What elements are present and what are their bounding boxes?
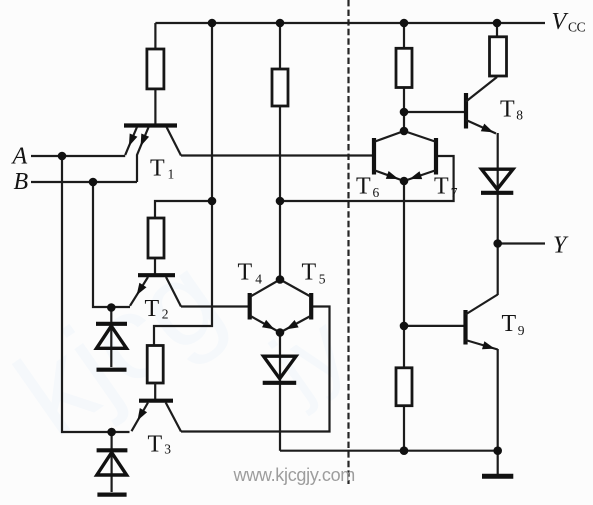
resistor R2 (272, 69, 288, 106)
transistor T1 (multi-emitter input) (124, 126, 181, 183)
svg-text:5: 5 (319, 271, 326, 286)
wire Vcc feed x=212 down to T2/T3 base resistors (154, 23, 212, 346)
resistor R1 (147, 49, 164, 89)
node T4/T5 collector junction (276, 275, 285, 284)
svg-text:2: 2 (162, 307, 169, 322)
wire T8 base (404, 111, 464, 113)
node T2-base junction (208, 197, 217, 206)
wire T2 collector to T4 base (181, 305, 248, 307)
wire R2 column x=280 (279, 23, 281, 280)
node B junction (89, 178, 98, 187)
node T6/T7 emitter junction (400, 177, 409, 186)
svg-text:T: T (148, 432, 163, 458)
resistor R5 (396, 48, 412, 87)
wire T7 base wrap (280, 156, 454, 201)
wire output Y (498, 242, 545, 244)
svg-text:T: T (145, 296, 160, 322)
dashed divider line (347, 0, 349, 484)
transistor T3 (132, 383, 182, 432)
svg-text:6: 6 (373, 185, 380, 200)
svg-text:T: T (500, 97, 515, 123)
node Y junction (493, 239, 502, 248)
node T6/T7 collector junction (400, 127, 409, 136)
svg-text:1: 1 (168, 167, 175, 182)
wire column x=404 (403, 23, 405, 451)
svg-text:T: T (502, 311, 517, 337)
transistor T8 (466, 77, 497, 134)
transistor T7 (404, 131, 436, 181)
wire Vcc rail (155, 22, 545, 24)
resistor R6 (490, 37, 507, 76)
ground (D2) (97, 493, 126, 497)
diode D3 (263, 356, 297, 383)
wire input B (31, 181, 137, 183)
svg-text:8: 8 (516, 107, 523, 122)
wire input A (31, 155, 125, 157)
diode D2 (input clamp, A) (97, 432, 128, 492)
transistor T4 (250, 280, 280, 333)
wire A riser to T3 emitter (62, 156, 130, 432)
svg-text:T: T (302, 260, 317, 286)
svg-text:T: T (356, 174, 371, 200)
node D2 anode junction (107, 428, 116, 437)
transistor T2 (130, 275, 181, 306)
svg-text:T: T (434, 174, 449, 200)
wire T8 emitter / D4 / output column (497, 133, 499, 295)
wire T5 base wrap to T3 collector (181, 307, 330, 432)
diode D1 (input clamp, B) (96, 308, 127, 368)
node T9-base junction (400, 322, 409, 331)
svg-text:V: V (552, 9, 569, 35)
wire R4 lead (496, 23, 498, 37)
svg-text:4: 4 (255, 271, 262, 286)
wire T9 emitter to ground (497, 349, 499, 474)
ground (D1) (97, 368, 127, 372)
ground (output stage) (482, 474, 513, 479)
node A junction (58, 152, 67, 161)
svg-text:3: 3 (164, 442, 171, 457)
node T8-base junction (400, 108, 409, 117)
svg-text:CC: CC (568, 20, 586, 35)
resistor R4 (147, 346, 163, 384)
node dots on Vcc rail (208, 19, 502, 28)
wire node T2 base branch (155, 201, 212, 274)
diode D4 (481, 169, 513, 193)
wire bottom ground bus (280, 450, 498, 452)
svg-text:A: A (11, 144, 28, 170)
node T4/T5 emitter junction (276, 328, 285, 337)
transistor T9 (466, 295, 498, 350)
resistor R3 (148, 218, 164, 258)
svg-text:T: T (150, 156, 165, 182)
resistor R7 (396, 368, 412, 406)
faint site watermark backdrop (0, 229, 365, 461)
svg-text:B: B (14, 169, 29, 195)
wire B riser to T2 emitter (93, 182, 130, 307)
svg-text:T: T (238, 260, 253, 286)
node D1 anode junction (107, 303, 116, 312)
wire D3 column (279, 333, 281, 451)
wire R1 leads (154, 23, 156, 124)
wire T1 collector to T6 base (181, 154, 372, 156)
transistor T5 (280, 280, 311, 333)
node R2-bottom junction (276, 197, 285, 206)
svg-text:9: 9 (518, 323, 525, 338)
wire T9 base (404, 325, 464, 327)
svg-text:www.kjcgjy.com: www.kjcgjy.com (233, 465, 355, 485)
transistor T6 (374, 131, 404, 181)
node ground bus junctions (400, 446, 502, 455)
svg-text:7: 7 (451, 185, 458, 200)
